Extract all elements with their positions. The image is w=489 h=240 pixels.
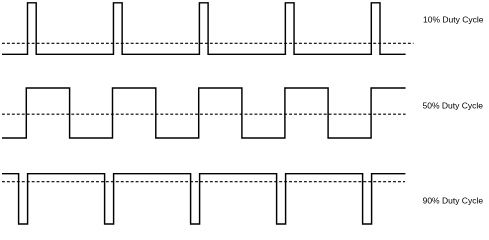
waveform 10% duty cycle xyxy=(2,3,406,55)
svg-text:90% Duty Cycle: 90% Duty Cycle xyxy=(423,195,484,205)
average line 50% (dashed) xyxy=(2,113,406,115)
svg-text:50% Duty Cycle: 50% Duty Cycle xyxy=(423,101,484,111)
waveform 50% duty cycle xyxy=(2,88,406,138)
waveform 90% duty cycle xyxy=(2,174,405,224)
average line 10% (dashed) xyxy=(2,42,414,44)
average line 90% (dashed) xyxy=(2,181,405,183)
svg-text:10% Duty Cycle: 10% Duty Cycle xyxy=(423,15,484,25)
